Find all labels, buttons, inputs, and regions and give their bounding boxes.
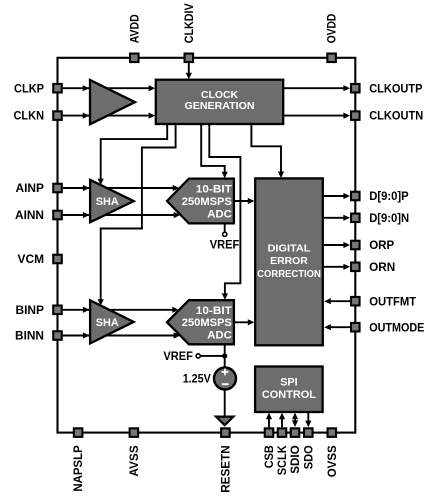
svg-text:CLKN: CLKN [14, 110, 45, 123]
wire CLKN to buffer and buffer to clock generation [63, 115, 153, 117]
junction dot VREF B [222, 353, 227, 358]
clock generation block [156, 80, 283, 124]
svg-text:AVSS: AVSS [128, 445, 141, 477]
svg-text:ADC: ADC [207, 330, 232, 342]
svg-text:VCM: VCM [18, 253, 45, 266]
svg-text:ADC: ADC [207, 208, 232, 220]
svg-text:ORN: ORN [369, 261, 395, 274]
wire DEC to D[9:0]P [323, 195, 347, 197]
pin CLKDIV [185, 54, 194, 63]
pin AVSS [130, 428, 139, 437]
wire BINP to SHA B and SHA B to ADC B [63, 309, 176, 311]
RESETN arrow [216, 417, 233, 426]
svg-text:BINN: BINN [15, 330, 44, 343]
pin AINN [53, 211, 62, 220]
wire SPI control to SDO [307, 412, 309, 424]
svg-text:OVSS: OVSS [326, 445, 339, 477]
wire ADC B bottom to 1.25V source [224, 344, 226, 367]
svg-text:D[9:0]N: D[9:0]N [369, 212, 409, 225]
svg-text:10-BIT: 10-BIT [196, 184, 232, 196]
svg-text:CLKOUTP: CLKOUTP [369, 82, 423, 95]
wire ADC A VREF stub [224, 223, 226, 232]
svg-text:AINP: AINP [16, 182, 45, 195]
svg-text:CLKDIV: CLKDIV [183, 3, 196, 43]
wire 1.25V source to RESETN arrow [224, 390, 226, 418]
svg-text:250MSPS: 250MSPS [182, 317, 232, 329]
ADC A [167, 179, 234, 224]
svg-text:VREF: VREF [210, 238, 240, 251]
svg-text:SDIO: SDIO [289, 445, 302, 474]
wire OUTMODE to DEC [327, 326, 350, 328]
pin BINP [53, 306, 62, 315]
pin VCM [53, 255, 62, 264]
wire clock to digital error correction [251, 124, 281, 175]
wire clock to SHA A [101, 124, 168, 182]
wire BINN to SHA B and SHA B to ADC B [63, 335, 178, 337]
wire CLKDIV into clock generation [188, 63, 190, 76]
pin CLKN [53, 111, 62, 120]
svg-text:250MSPS: 250MSPS [182, 196, 232, 208]
svg-text:CSB: CSB [263, 445, 276, 468]
svg-text:SHA: SHA [96, 196, 119, 208]
pin D[9:0]N [351, 214, 360, 223]
wire ADC A output to digital error correction [234, 200, 251, 202]
svg-text:OUTFMT: OUTFMT [369, 295, 416, 308]
wire OUTFMT to DEC [327, 300, 350, 302]
pin NAPSLP [74, 428, 83, 437]
wire AINN to SHA A and SHA A to ADC A [63, 214, 178, 216]
1.25V reference source [214, 368, 236, 390]
wire SDIO to SPI control [294, 416, 296, 424]
wire clock to ADC A [201, 124, 225, 175]
pin RESETN [221, 428, 230, 437]
pin CSB [265, 428, 274, 437]
SHA A [90, 180, 134, 223]
wire SCLK to SPI control [281, 416, 283, 427]
pin OVSS [328, 428, 337, 437]
svg-text:RESETN: RESETN [220, 445, 233, 493]
svg-text:OUTMODE: OUTMODE [369, 321, 424, 334]
svg-text:D[9:0]P: D[9:0]P [369, 190, 409, 203]
VREF B terminal circle [196, 354, 200, 358]
pin ORP [351, 241, 360, 250]
pin OVDD [327, 54, 336, 63]
svg-text:SCLK: SCLK [276, 445, 289, 476]
pin SDO [304, 428, 313, 437]
pin ORN [351, 263, 360, 272]
svg-text:DIGITAL: DIGITAL [268, 244, 312, 255]
pin OUTMODE [351, 323, 360, 332]
svg-text:ERROR: ERROR [270, 256, 308, 267]
wire AINP to SHA A and SHA A to ADC A [63, 187, 177, 189]
svg-text:CORRECTION: CORRECTION [257, 269, 321, 280]
wire clock generation to CLKOUTP [283, 87, 347, 89]
pin CLKOUTN [351, 111, 360, 120]
wire CLKP to buffer and buffer to clock generation [63, 87, 153, 89]
pin AVDD [130, 54, 139, 63]
svg-text:VREF: VREF [163, 350, 193, 363]
svg-text:SDO: SDO [302, 445, 315, 469]
wire ADC B output to digital error correction [234, 321, 251, 323]
svg-text:AINN: AINN [15, 209, 44, 222]
SPI control block [255, 367, 323, 413]
digital error correction block [255, 178, 323, 345]
svg-text:CLKOUTN: CLKOUTN [369, 110, 423, 123]
wire clock to SHA B [101, 124, 176, 302]
svg-text:GENERATION: GENERATION [185, 101, 255, 112]
wire VREF B to junction [200, 355, 224, 357]
pin SDIO [291, 428, 300, 437]
wire clock to ADC B [209, 124, 240, 296]
svg-text:OVDD: OVDD [326, 14, 339, 44]
svg-text:AVDD: AVDD [128, 14, 141, 43]
wire DEC to ORN [323, 266, 347, 268]
pin AINP [53, 184, 62, 193]
wire CSB to SPI control [268, 416, 270, 427]
svg-text:ORP: ORP [369, 239, 394, 252]
SHA B [90, 300, 134, 343]
svg-text:CLKP: CLKP [14, 82, 44, 95]
svg-text:SHA: SHA [96, 317, 119, 329]
pin BINN [53, 331, 62, 340]
wire DEC to D[9:0]N [323, 217, 347, 219]
VREF A terminal circle [223, 232, 227, 236]
svg-text:BINP: BINP [16, 304, 45, 317]
svg-text:CONTROL: CONTROL [262, 389, 316, 401]
pin D[9:0]P [351, 192, 360, 201]
svg-text:NAPSLP: NAPSLP [72, 445, 85, 492]
svg-text:10-BIT: 10-BIT [196, 305, 232, 317]
ADC B [167, 300, 234, 344]
wire clock generation to CLKOUTN [283, 115, 347, 117]
svg-text:CLOCK: CLOCK [201, 90, 238, 101]
pin OUTFMT [351, 297, 360, 306]
pin CLKOUTP [351, 84, 360, 93]
pin CLKP [53, 84, 62, 93]
wire DEC to ORP [323, 244, 347, 246]
chip boundary [58, 58, 356, 433]
clock buffer amplifier [90, 80, 135, 124]
pin SCLK [278, 428, 287, 437]
svg-text:1.25V: 1.25V [183, 373, 211, 386]
svg-text:SPI: SPI [280, 376, 297, 388]
arrowheads [83, 85, 90, 91]
